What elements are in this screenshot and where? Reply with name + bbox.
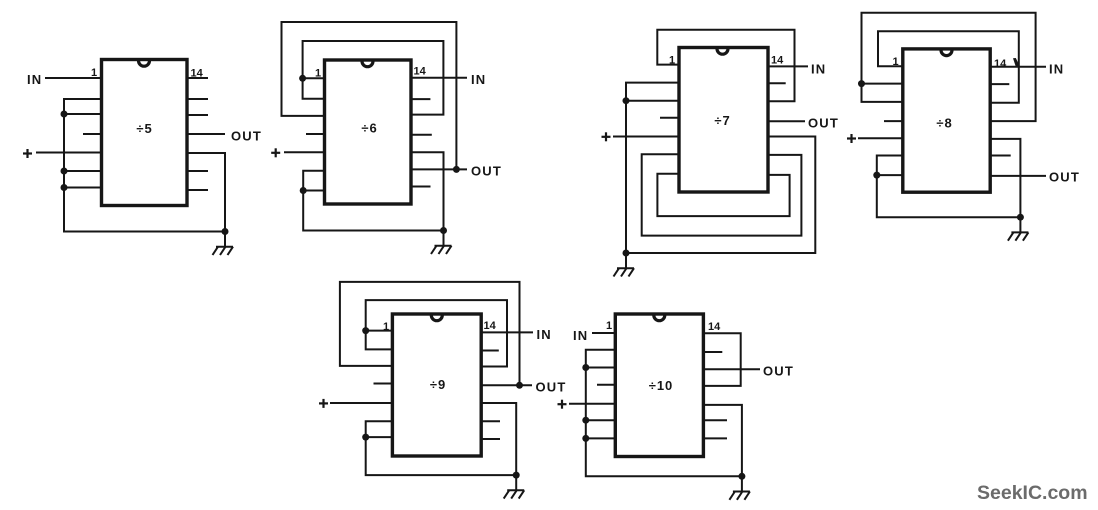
wire U5 pin 14 to IN: [481, 331, 533, 333]
wire U2 inner loop pins 1,2 to pin 12: [303, 41, 444, 115]
node U4 pin 2 junction: [858, 80, 865, 87]
wire U6 pin 2 to ground bus: [586, 350, 742, 477]
svg-text:IN: IN: [573, 328, 588, 343]
wire +V to U3 pin 5: [613, 136, 679, 138]
wire U3 pin 11 to OUT: [768, 120, 805, 122]
stub U1 pin 12: [187, 114, 208, 116]
stub U5 pin 4: [374, 383, 393, 385]
svg-text:÷7: ÷7: [714, 113, 730, 128]
arrowhead on U4 IN wire: [1013, 58, 1020, 67]
svg-text:14: 14: [771, 55, 784, 67]
ground U2: [443, 231, 445, 246]
wire U5 pin 1: [366, 330, 393, 332]
stub U4 pin 4: [884, 120, 903, 122]
IC U4 (:8) pin-1 index notch: [941, 50, 952, 56]
stub U6 pin 8: [703, 437, 727, 439]
wire U6 pin 12 to OUT: [703, 368, 760, 370]
node U6 pin 6 junction: [582, 417, 589, 424]
wire U5 pin 6 to ground bus: [366, 421, 517, 475]
node U4 pin 7 junction: [873, 172, 880, 179]
ground U4: [1019, 217, 1021, 232]
node U2 OUT junction: [453, 166, 460, 173]
wire +V to U5 pin 5: [330, 402, 392, 404]
node U6 ground junction: [738, 473, 745, 480]
wire U2 outer loop pin 3 to OUT node: [282, 22, 457, 169]
wire U1 pin 2 to ground bus: [64, 99, 225, 232]
node U2 ground junction: [440, 227, 447, 234]
wire U3 pin 14 to IN: [768, 65, 808, 67]
wire +V to U2 pin 5: [284, 151, 325, 153]
node U5 pin 1 junction: [362, 327, 369, 334]
stub U6 pin 9: [703, 419, 727, 421]
stub U1 pin 8: [187, 189, 208, 191]
svg-text:1: 1: [606, 320, 612, 332]
stub U2 pin 8: [411, 186, 431, 188]
wire U3 pin 2 to ground bus: [626, 83, 679, 253]
wire U6 pin 10 to ground: [703, 405, 742, 476]
IC U6 (:10) pin-1 index notch: [654, 315, 665, 321]
wire U4 inner loop pin 1 to pin 12: [878, 31, 1019, 102]
svg-text:IN: IN: [471, 72, 486, 87]
IC U5 (:9) body: [392, 314, 481, 456]
svg-text:OUT: OUT: [808, 116, 839, 131]
stub U3 pin 4: [660, 117, 679, 119]
wire U3 pin 3: [626, 100, 679, 102]
ground U1: [224, 232, 226, 247]
wire U3 top loop pin 1 to pin 12: [657, 30, 794, 102]
stub U4 pin 9: [990, 155, 1011, 157]
svg-text:÷10: ÷10: [649, 378, 674, 393]
wire U1 pin 10 to ground: [187, 153, 225, 232]
node U3 pin 3 junction: [623, 97, 630, 104]
node U1 pin 6 junction: [61, 168, 68, 175]
svg-text:OUT: OUT: [231, 129, 262, 144]
node U4 ground junction: [1017, 214, 1024, 221]
svg-text:14: 14: [484, 320, 497, 332]
stub U1 pin 4: [83, 133, 102, 135]
svg-text:IN: IN: [27, 72, 42, 87]
ground U3: [625, 253, 627, 268]
stub U2 pin 11: [411, 134, 432, 136]
node U5 ground junction: [513, 472, 520, 479]
wire U2 pin 7: [303, 190, 324, 192]
wire U4 pin 6 to ground bus: [877, 156, 1021, 218]
svg-text:IN: IN: [537, 327, 552, 342]
svg-text:OUT: OUT: [471, 164, 502, 179]
node U2 pin 1 junction: [299, 75, 306, 82]
stub U5 pin 8: [481, 438, 500, 440]
+V supply label U6: [558, 403, 567, 405]
wire +V to U6 pin 5: [569, 403, 615, 405]
node U2 pin 7 junction: [300, 187, 307, 194]
svg-text:÷8: ÷8: [936, 116, 952, 131]
svg-text:SeekIC.com: SeekIC.com: [977, 482, 1088, 504]
stub U4 pin 13: [990, 83, 1009, 85]
stub U5 pin 9: [481, 420, 500, 422]
stub U1 pin 14: [187, 77, 208, 79]
+V supply label U1: [23, 152, 32, 154]
IC U2 (:6) pin-1 index notch: [362, 61, 373, 67]
wire U5 pin 10 to ground: [481, 403, 516, 475]
stub U2 pin 4: [306, 133, 325, 135]
ground U5: [515, 475, 517, 490]
stub U5 pin 13: [481, 350, 499, 352]
node U6 pin 7 junction: [582, 435, 589, 442]
node U5 pin 7 junction: [362, 434, 369, 441]
svg-text:14: 14: [414, 66, 427, 78]
node U3 ground junction: [623, 250, 630, 257]
svg-text:IN: IN: [1049, 62, 1064, 77]
svg-text:÷9: ÷9: [430, 377, 446, 392]
wire U4 pin 8 to OUT: [990, 175, 1046, 177]
wire U4 pin 2: [862, 83, 903, 85]
IC U5 (:9) pin-1 index notch: [431, 315, 442, 321]
wire +V to U4 pin 5: [858, 137, 903, 139]
svg-text:OUT: OUT: [1049, 170, 1080, 185]
svg-text:14: 14: [994, 58, 1007, 70]
wire U2 pin 10 to ground: [411, 152, 444, 230]
wire U1 pin 3: [64, 113, 102, 115]
wire U2 pin 6 to ground bus: [303, 171, 443, 231]
wire U1 pin 11 to OUT: [187, 133, 225, 135]
svg-text:IN: IN: [811, 62, 826, 77]
svg-text:OUT: OUT: [536, 380, 567, 395]
IC U4 (:8) body: [903, 49, 990, 192]
stub U2 pin 13: [411, 98, 430, 100]
node U5 OUT junction: [516, 382, 523, 389]
wire U6 pin 3: [586, 367, 616, 369]
IC U3 (:7) pin-1 index notch: [717, 49, 728, 55]
stub U1 pin 9: [187, 170, 208, 172]
node U1 pin 7 junction: [61, 184, 68, 191]
wire IN to U6 pin 1: [592, 332, 615, 334]
svg-text:÷6: ÷6: [361, 121, 377, 136]
wire IN to U1 pin 1: [45, 77, 102, 79]
+V supply label U3: [602, 136, 611, 138]
wire U5 inner loop pins 1,2 to pin 12: [366, 300, 507, 366]
+V supply label U5: [319, 402, 328, 404]
wire U3 pin 10 loop to ground: [626, 137, 815, 254]
wire U6 loop pin 14 to pin 11: [703, 333, 740, 386]
node U6 pin 3 junction: [582, 364, 589, 371]
wire U5 pin 11 to OUT: [481, 384, 532, 386]
wire U6 pin 7: [586, 437, 616, 439]
wire U4 pin 10 to ground: [990, 139, 1020, 217]
wire +V to U1 pin 5: [36, 152, 102, 154]
wire U4 pin 7: [877, 174, 903, 176]
+V supply label U4: [847, 137, 856, 139]
wire U2 pin 1: [303, 77, 325, 79]
svg-text:OUT: OUT: [763, 364, 794, 379]
node U1 pins 2-3 junction: [61, 111, 68, 118]
wire U5 outer loop pin 3 to OUT node: [340, 282, 520, 385]
wire U1 pin 6: [64, 170, 102, 172]
wire U4 outer loop pins 2,3 to pin 11: [862, 13, 1036, 121]
wire U2 pin 14 to IN: [411, 77, 467, 79]
IC U1 (:5) body: [102, 60, 188, 206]
wire U1 pin 7: [64, 187, 102, 189]
IC U3 (:7) body: [679, 48, 768, 193]
node U1 ground junction: [222, 228, 229, 235]
stub U3 pin 13: [768, 82, 786, 84]
IC U6 (:10) body: [615, 314, 703, 457]
wire U4 pin 14 to IN: [990, 66, 1046, 68]
wire U6 pin 6: [586, 419, 616, 421]
wire U3 middle loop pin 6 to pin 9: [642, 154, 802, 235]
stub U6 pin 13: [703, 351, 722, 353]
stub U6 pin 4: [597, 384, 615, 386]
svg-text:÷5: ÷5: [136, 121, 152, 136]
stub U1 pin 13: [187, 98, 208, 100]
wire U2 pin 9 to OUT: [411, 168, 467, 170]
IC U2 (:6) body: [325, 60, 412, 204]
+V supply label U2: [271, 152, 280, 154]
IC U1 (:5) pin-1 index notch: [139, 61, 150, 67]
wire U5 pin 7: [366, 436, 393, 438]
ground U6: [741, 476, 743, 491]
wire U3 inner loop pin 7 to pin 8: [657, 174, 789, 216]
svg-text:14: 14: [708, 321, 721, 333]
